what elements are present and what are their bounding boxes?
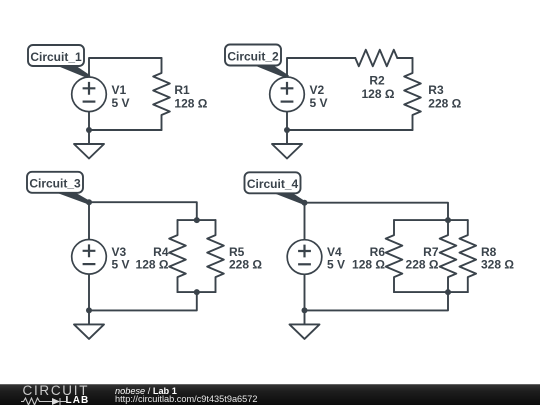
svg-text:R2: R2 xyxy=(369,73,385,87)
svg-text:328 Ω: 328 Ω xyxy=(481,257,514,271)
svg-text:5 V: 5 V xyxy=(327,257,345,271)
svg-text:5 V: 5 V xyxy=(112,96,130,110)
svg-text:Circuit_3: Circuit_3 xyxy=(29,177,81,191)
svg-text:128 Ω: 128 Ω xyxy=(174,96,207,110)
svg-text:228 Ω: 228 Ω xyxy=(406,257,439,271)
svg-text:128 Ω: 128 Ω xyxy=(136,257,169,271)
svg-text:228 Ω: 228 Ω xyxy=(229,257,262,271)
svg-text:Circuit_4: Circuit_4 xyxy=(247,177,299,191)
svg-text:V2: V2 xyxy=(310,83,325,97)
svg-text:V1: V1 xyxy=(112,83,127,97)
svg-text:R3: R3 xyxy=(428,83,444,97)
svg-text:128 Ω: 128 Ω xyxy=(362,87,395,101)
svg-text:228 Ω: 228 Ω xyxy=(428,96,461,110)
svg-text:Circuit_2: Circuit_2 xyxy=(227,49,279,63)
svg-text:R1: R1 xyxy=(174,83,190,97)
svg-text:128 Ω: 128 Ω xyxy=(352,257,385,271)
svg-text:5 V: 5 V xyxy=(112,257,130,271)
svg-text:5 V: 5 V xyxy=(310,96,328,110)
svg-text:Circuit_1: Circuit_1 xyxy=(30,50,82,64)
